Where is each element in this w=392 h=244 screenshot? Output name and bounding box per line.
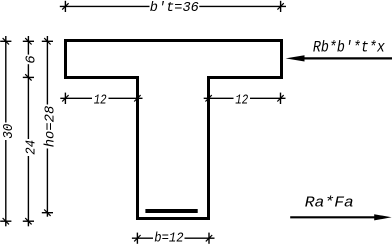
- svg-text:12: 12: [94, 93, 107, 109]
- dimension 12 (left flange overhang): [60, 93, 142, 104]
- svg-text:b't=36: b't=36: [150, 0, 199, 16]
- dimension b=12 (web width, bottom): [132, 233, 215, 244]
- svg-text:Rb*b'*t*x: Rb*b'*t*x: [313, 39, 386, 57]
- dimension 6 (flange depth): [23, 36, 34, 81]
- svg-text:6: 6: [23, 55, 39, 63]
- dimension 12 (right flange overhang): [204, 93, 286, 104]
- dimension b't=36 (top flange width): [60, 1, 286, 12]
- force arrow Rb*b'*t*x (compression resultant, points left): [286, 55, 392, 61]
- svg-text:Ra*Fa: Ra*Fa: [305, 194, 354, 211]
- svg-text:ho=28: ho=28: [42, 106, 58, 148]
- svg-text:12: 12: [235, 93, 248, 109]
- label Rb*b'*t*x: [313, 39, 386, 57]
- dimension 30 (overall depth): [0, 36, 11, 226]
- T-beam section outline: [66, 41, 282, 219]
- svg-text:b=12: b=12: [154, 231, 183, 244]
- svg-text:30: 30: [1, 124, 17, 139]
- force arrow Ra*Fa (tension resultant, points right): [290, 214, 391, 220]
- svg-text:24: 24: [23, 140, 39, 155]
- dimension 24 (web depth below flange): [23, 77, 34, 226]
- label Ra*Fa: [305, 194, 354, 211]
- dimension ho=28 (effective depth): [42, 36, 53, 217]
- rebar bar Fa: [145, 209, 197, 213]
